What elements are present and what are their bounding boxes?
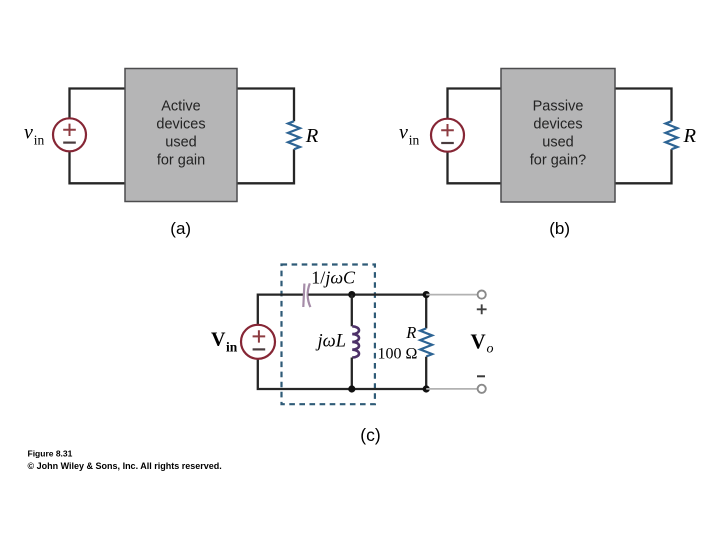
wire: resistor branch top lead: [425, 295, 427, 329]
svg-text:© John Wiley & Sons, Inc. All: © John Wiley & Sons, Inc. All rights res…: [28, 461, 222, 471]
svg-text:o: o: [487, 342, 494, 357]
wire: block (a) to resistor R top: [237, 89, 294, 122]
svg-text:(b): (b): [549, 219, 570, 238]
svg-text:in: in: [34, 132, 45, 147]
wire: resistor R bottom to block (b): [615, 149, 672, 183]
inductor jwL: [352, 326, 359, 357]
svg-text:1/jωC: 1/jωC: [311, 268, 356, 288]
wire: source top to capacitor left plate: [258, 295, 303, 325]
wire: block (b) to resistor R top: [615, 89, 672, 122]
svg-text:in: in: [409, 133, 420, 148]
terminal: bottom output: [478, 385, 486, 393]
svg-text:devices: devices: [156, 116, 205, 132]
resistor R (a): [288, 121, 300, 149]
block: Passive devices used for gain?: [501, 69, 615, 203]
wire: capacitor right plate to output node: [308, 293, 426, 295]
wire: block (a) to source bottom: [70, 151, 126, 183]
svg-text:(a): (a): [170, 219, 191, 238]
svg-text:(c): (c): [360, 425, 380, 445]
svg-text:R: R: [405, 323, 416, 342]
wire: inductor bottom lead: [351, 358, 353, 390]
svg-text:Figure 8.31: Figure 8.31: [28, 449, 73, 459]
svg-text:v: v: [399, 122, 408, 144]
svg-text:100 Ω: 100 Ω: [378, 346, 418, 363]
svg-text:for gain?: for gain?: [530, 152, 586, 168]
svg-text:V: V: [471, 330, 486, 354]
svg-text:Passive: Passive: [533, 98, 584, 114]
resistor R (b): [666, 121, 678, 149]
dashed box (resonant tank): [282, 265, 375, 405]
capacitor 1/jwC: [303, 283, 310, 307]
label + (output polarity): [477, 304, 487, 314]
wire: block (b) to source bottom: [448, 152, 502, 184]
svg-text:jωL: jωL: [316, 332, 347, 352]
wire: source top to block (a): [70, 89, 126, 119]
terminal: top output: [478, 291, 486, 299]
block: Active devices used for gain: [125, 69, 237, 202]
svg-text:devices: devices: [533, 116, 582, 132]
svg-text:used: used: [542, 134, 573, 150]
svg-text:in: in: [226, 340, 238, 355]
svg-text:R: R: [305, 125, 319, 147]
wire: bottom output lead (gray): [426, 388, 478, 390]
wire: inductor top lead: [351, 295, 353, 327]
node: resistor bottom junction: [423, 385, 430, 392]
svg-text:used: used: [165, 134, 196, 150]
resistor R 100 ohm: [420, 328, 432, 356]
node: inductor bottom junction: [348, 385, 355, 392]
wire: source bottom rail: [258, 359, 426, 389]
wire: source top to block (b): [448, 89, 502, 119]
wire: resistor branch bottom lead: [425, 357, 427, 389]
svg-text:V: V: [211, 329, 226, 351]
wire: resistor R bottom to block (a): [237, 149, 294, 183]
node: inductor top junction: [348, 291, 355, 298]
svg-text:Active: Active: [161, 98, 201, 114]
voltage source v_in (b): [431, 119, 464, 152]
label - (output polarity): [477, 375, 485, 377]
node: resistor top junction: [423, 291, 430, 298]
wire: top output lead (gray): [426, 294, 478, 296]
voltage source V_in (c): [241, 325, 275, 359]
svg-text:for gain: for gain: [157, 152, 205, 168]
svg-text:R: R: [683, 125, 697, 147]
svg-text:v: v: [24, 121, 33, 143]
voltage source v_in (a): [53, 118, 86, 151]
